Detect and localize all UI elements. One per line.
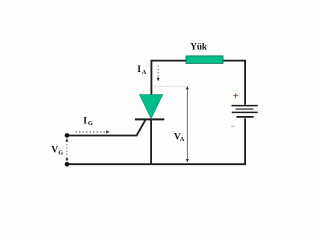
svg-text:Yük: Yük (190, 42, 208, 52)
svg-text:G: G (58, 149, 63, 156)
svg-text:A: A (180, 136, 185, 143)
svg-text:G: G (88, 120, 93, 127)
svg-text:A: A (142, 69, 147, 76)
svg-text:I: I (83, 116, 87, 127)
svg-text:I: I (137, 64, 141, 75)
